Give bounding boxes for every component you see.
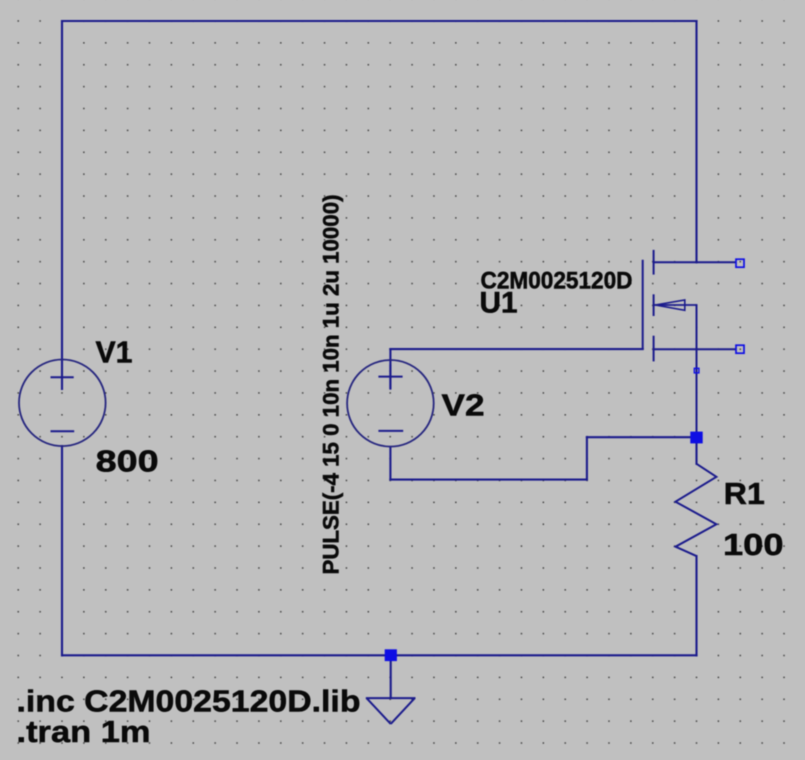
svg-text:V2: V2 — [442, 388, 485, 423]
body arrow head — [655, 300, 685, 310]
wire V2 bottom horizontal — [390, 479, 587, 481]
wire top rail — [62, 20, 697, 22]
channel dash top — [653, 251, 655, 274]
wire V2 bottom stub — [389, 447, 391, 480]
wire to source node — [587, 436, 697, 438]
svg-text:R1: R1 — [724, 476, 765, 511]
svg-text:100: 100 — [723, 527, 784, 562]
wire R1 to bottom rail — [695, 556, 697, 655]
transistor U1 (NMOS C2M0025120D) — [643, 251, 735, 437]
pin square source (unconnected pin) — [736, 345, 744, 353]
junction node at MOSFET source — [690, 432, 702, 444]
svg-text:V1: V1 — [96, 334, 133, 369]
source line — [654, 348, 735, 350]
wire source node to R1 — [695, 437, 697, 464]
voltage source V1 — [19, 360, 106, 447]
drain line — [654, 261, 735, 263]
wire V2 top stub — [389, 349, 391, 389]
junction node at ground tee — [385, 649, 397, 661]
pin square drain (unconnected pin) — [736, 259, 744, 267]
ground symbol — [366, 698, 416, 724]
svg-text:.tran 1m: .tran 1m — [17, 714, 151, 749]
wire V2 top to gate — [390, 348, 642, 350]
wire ground stub — [390, 655, 392, 698]
voltage source V2 — [347, 360, 434, 447]
svg-text:U1: U1 — [480, 287, 518, 320]
resistor R1 zigzag — [676, 464, 717, 556]
channel dash bottom — [653, 337, 655, 361]
wire bottom rail — [62, 654, 697, 656]
wire left rail upper — [61, 21, 63, 389]
body wire down to node — [696, 305, 698, 437]
channel dash middle — [653, 295, 655, 315]
gate bar — [642, 261, 644, 349]
pin square small (source pin) — [694, 368, 699, 373]
body arrow shaft — [654, 304, 697, 306]
wire left rail lower — [61, 446, 63, 655]
svg-text:800: 800 — [96, 444, 159, 479]
svg-text:PULSE(-4 15 0 10n 10n 1u 2u 10: PULSE(-4 15 0 10n 10n 1u 2u 10000) — [319, 195, 344, 575]
wire right drop to drain — [695, 21, 697, 262]
wire V2 riser — [586, 437, 588, 479]
